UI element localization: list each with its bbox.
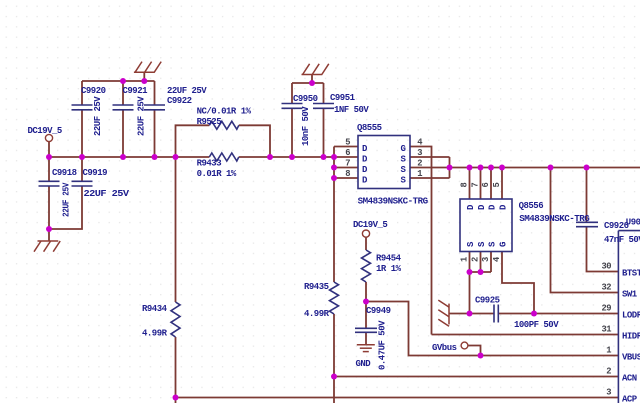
transistor Q8556 body xyxy=(460,199,512,252)
node SW bus Q8556 pin7 xyxy=(478,165,484,171)
svg-text:SM4839NSKC-TRG: SM4839NSKC-TRG xyxy=(358,197,428,207)
wire ACN bus to chip pin2 xyxy=(334,376,618,378)
node SW bus Q8556 pin8 xyxy=(467,165,473,171)
wire C9950 top xyxy=(291,83,293,104)
wire Q8555 pin8 stub xyxy=(334,177,358,179)
svg-text:BTST: BTST xyxy=(622,269,640,279)
svg-text:0.47UF 50V: 0.47UF 50V xyxy=(378,320,388,370)
svg-text:U900: U900 xyxy=(626,218,640,228)
svg-text:31: 31 xyxy=(601,325,611,335)
node R9434-ACP xyxy=(173,395,179,401)
transistor Q8555 body xyxy=(358,136,410,189)
capacitor C9919 xyxy=(72,181,93,186)
node topbus-gnd stem xyxy=(141,78,147,84)
wire Q8555 pin5 stub xyxy=(334,146,358,148)
capacitor C9918 xyxy=(39,181,60,186)
ground GND signal at C9949 xyxy=(357,345,375,352)
capacitor C9926 xyxy=(576,222,598,226)
wire C9925 right to chip pin29 LODRV xyxy=(498,313,618,315)
wire C9918 bottom xyxy=(48,186,50,229)
svg-text:7: 7 xyxy=(345,159,350,169)
svg-text:1R 1%: 1R 1% xyxy=(376,264,402,274)
node SW bus C9926 xyxy=(584,165,590,171)
wire C9949 bottom xyxy=(365,332,367,344)
wire Q8556 top stub pin5 xyxy=(501,168,503,200)
svg-text:6: 6 xyxy=(481,183,491,188)
wire main rail left segment xyxy=(49,156,209,158)
svg-text:1: 1 xyxy=(606,346,611,356)
resistor R9454 xyxy=(362,250,371,282)
wire C9926 top xyxy=(586,168,588,223)
wire ACP bus to chip pin3 xyxy=(176,397,619,399)
svg-text:Q8555: Q8555 xyxy=(357,123,382,133)
capacitor C9951 xyxy=(313,104,334,109)
wire Q8556 source tie horizontal xyxy=(470,271,492,273)
svg-text:22UF 25V: 22UF 25V xyxy=(84,189,130,199)
wire Q8555 pin3 stub xyxy=(410,156,450,158)
node source tie pin2 xyxy=(447,165,453,171)
wire C9926 bottom to chip pin30 BTST xyxy=(587,227,619,272)
svg-text:G: G xyxy=(499,242,509,247)
wire R9434 column bottom xyxy=(175,337,177,403)
node R9454-C9949 xyxy=(363,299,369,305)
node rail-C9921 xyxy=(120,154,126,160)
capacitor C9921 xyxy=(113,105,134,110)
wire main rail right segment xyxy=(239,156,334,158)
svg-text:GVbus: GVbus xyxy=(432,343,457,353)
svg-text:32: 32 xyxy=(601,283,611,293)
svg-text:3: 3 xyxy=(417,148,422,158)
svg-text:3: 3 xyxy=(606,388,611,398)
wire C9921 top xyxy=(122,81,124,105)
node rail-C9920 xyxy=(79,154,85,160)
wire Q8556 source pin2 drop xyxy=(480,252,482,273)
svg-text:NC/0.01R 1%: NC/0.01R 1% xyxy=(197,107,252,117)
resistor R9435 xyxy=(330,282,339,314)
wire ground stem bottom left xyxy=(48,229,50,241)
svg-text:R9525: R9525 xyxy=(197,117,222,127)
node drainbus pin6 xyxy=(331,154,337,160)
wire VBUS from C9949 node xyxy=(366,302,618,356)
node topbus-gnd stem right xyxy=(309,80,315,86)
svg-text:10nF 50V: 10nF 50V xyxy=(301,106,311,146)
wire Q8556 top stub pin7 xyxy=(480,168,482,200)
chip U90 outline xyxy=(618,231,640,403)
wire R9434 column top xyxy=(175,157,177,302)
wire Q8555 pin6 stub xyxy=(334,156,358,158)
svg-text:4.99R: 4.99R xyxy=(142,329,168,339)
wire ground stem left xyxy=(143,72,145,81)
wire R9435 column bottom xyxy=(333,314,335,403)
ground chassis bottom-left xyxy=(34,241,60,252)
svg-text:1: 1 xyxy=(460,257,470,262)
node drainbus pin7 xyxy=(331,165,337,171)
node rail-R9525 right xyxy=(267,154,273,160)
svg-text:G: G xyxy=(401,144,406,154)
wire C9951 top xyxy=(323,83,325,104)
svg-text:22UF 25V: 22UF 25V xyxy=(167,86,207,96)
wire R9454 bottom xyxy=(365,282,367,302)
svg-text:8: 8 xyxy=(460,183,470,188)
node rail-C9922 xyxy=(152,154,158,160)
svg-text:C9950: C9950 xyxy=(293,94,318,104)
capacitor C9920 xyxy=(72,105,93,110)
capacitor C9950 xyxy=(282,104,303,109)
svg-text:100PF 50V: 100PF 50V xyxy=(514,320,559,330)
svg-text:GND: GND xyxy=(356,359,372,369)
svg-text:3: 3 xyxy=(481,257,491,262)
port GVbus xyxy=(461,342,468,349)
wire Q8556 gate path to LODRV node xyxy=(502,252,534,314)
svg-text:HIDRV: HIDRV xyxy=(622,332,640,342)
wire C9919 top xyxy=(81,157,83,181)
wire Q8556 source pin1 drop to ground node xyxy=(469,252,471,314)
wire Q8555 gate stub pin4 xyxy=(410,147,432,335)
wire Q8555 drain bus xyxy=(333,147,335,283)
wire R9525 loop left xyxy=(176,125,210,157)
node SW bus Q8556 pin5 xyxy=(499,165,505,171)
wire C9922 top xyxy=(154,81,156,105)
ground chassis at C9925 xyxy=(438,300,449,326)
wire ground to C9925 left xyxy=(449,313,494,315)
wire C9950 bottom xyxy=(291,108,293,157)
wire C9918 top xyxy=(48,157,50,181)
capacitor C9949 xyxy=(355,328,377,332)
wire GVbus branch xyxy=(468,346,481,356)
wire DC19V_5 second port drop xyxy=(365,237,367,250)
node topbus-C9921 xyxy=(120,78,126,84)
svg-text:ACN: ACN xyxy=(622,374,637,384)
svg-text:R9454: R9454 xyxy=(376,254,402,264)
svg-text:DC19V_5: DC19V_5 xyxy=(28,126,62,136)
resistor R9433 xyxy=(209,153,239,161)
wire Q8555 pin1 stub xyxy=(410,177,450,179)
node GVbus-VBUS xyxy=(478,353,484,359)
wire C9920 top xyxy=(81,81,83,105)
svg-text:DC19V_5: DC19V_5 xyxy=(353,220,387,230)
svg-text:R9433: R9433 xyxy=(197,159,222,169)
wire top cap bus left xyxy=(82,80,155,82)
node C9918-C9919 join xyxy=(46,226,52,232)
wire top cap bus right xyxy=(292,82,324,84)
svg-text:8: 8 xyxy=(345,169,350,179)
svg-text:22UF 25V: 22UF 25V xyxy=(62,182,72,217)
svg-text:47nF 50V: 47nF 50V xyxy=(604,235,640,245)
svg-text:7: 7 xyxy=(471,183,481,188)
svg-text:C9922: C9922 xyxy=(167,96,192,106)
svg-text:0.01R 1%: 0.01R 1% xyxy=(197,169,237,179)
wire C9951 bottom xyxy=(323,108,325,157)
svg-text:2: 2 xyxy=(606,367,611,377)
svg-text:22UF 25V: 22UF 25V xyxy=(137,96,147,136)
svg-text:4.99R: 4.99R xyxy=(304,309,330,319)
wire ground stem right xyxy=(311,75,313,84)
wire HIDRV to chip pin31 xyxy=(432,334,619,336)
svg-text:SW1: SW1 xyxy=(622,290,638,300)
node SW bus SW1 xyxy=(548,165,554,171)
port DC19V_5 mid xyxy=(362,230,369,237)
svg-text:LODRV: LODRV xyxy=(622,311,640,321)
svg-text:C9920: C9920 xyxy=(81,86,106,96)
wire R9525 loop right xyxy=(239,125,270,157)
svg-text:VBUS: VBUS xyxy=(622,353,640,363)
svg-text:C9919: C9919 xyxy=(83,168,108,178)
ground chassis top-left xyxy=(134,62,161,73)
node gnd C9925 left xyxy=(467,311,473,317)
svg-text:C9951: C9951 xyxy=(330,93,356,103)
node rail-C9950 xyxy=(289,154,295,160)
svg-text:C9949: C9949 xyxy=(366,306,391,316)
wire Q8555 pin2 stub and SW bus xyxy=(410,167,640,169)
node rail-C9951 xyxy=(321,154,327,160)
svg-text:5: 5 xyxy=(492,183,502,188)
svg-text:C9918: C9918 xyxy=(52,168,77,178)
svg-text:30: 30 xyxy=(601,262,611,272)
ground chassis top-right xyxy=(302,64,329,75)
svg-text:29: 29 xyxy=(601,304,611,314)
svg-text:R9435: R9435 xyxy=(304,282,329,292)
node Q8556 S2 xyxy=(478,269,484,275)
wire Q8555 source tie vertical xyxy=(449,157,451,178)
svg-text:C9921: C9921 xyxy=(123,86,149,96)
svg-text:22UF 25V: 22UF 25V xyxy=(93,96,103,136)
wire C9922 bottom xyxy=(154,110,156,157)
node rail-R9525 left xyxy=(173,154,179,160)
node Q8556 S1 xyxy=(467,269,473,275)
wire C9919 bottom L xyxy=(49,186,82,229)
node SW bus Q8556 pin6 xyxy=(488,165,494,171)
wire DC19V_5 port drop xyxy=(48,142,50,158)
svg-text:1NF 50V: 1NF 50V xyxy=(334,105,369,115)
svg-text:R9434: R9434 xyxy=(142,304,168,314)
resistor R9434 xyxy=(171,302,180,337)
svg-text:ACP: ACP xyxy=(622,395,638,403)
node drainbus pin8 xyxy=(331,175,337,181)
node rail-port xyxy=(46,154,52,160)
svg-text:SM4839NSKC-TRG: SM4839NSKC-TRG xyxy=(519,214,589,224)
capacitor C9922 xyxy=(144,105,165,110)
wire Q8555 pin7 stub xyxy=(334,167,358,169)
wire C9920 bottom xyxy=(81,110,83,157)
svg-text:1: 1 xyxy=(417,169,422,179)
wire C9921 bottom xyxy=(122,110,124,157)
capacitor C9925 xyxy=(494,305,498,323)
svg-text:2: 2 xyxy=(471,257,481,262)
svg-text:6: 6 xyxy=(345,148,350,158)
node C9925 right LODRV xyxy=(531,311,537,317)
wire Q8556 top stub pin6 xyxy=(490,168,492,200)
svg-text:2: 2 xyxy=(417,159,422,169)
svg-text:5: 5 xyxy=(345,138,350,148)
svg-text:C9925: C9925 xyxy=(475,296,500,306)
resistor R9525 xyxy=(209,121,239,129)
wire Q8556 top stub pin8 xyxy=(469,168,471,200)
node R9435-ACN xyxy=(331,374,337,380)
wire Q8556 source pin3 drop xyxy=(490,252,492,273)
wire SW1 drop xyxy=(551,168,619,293)
wire C9949 top xyxy=(365,302,367,329)
svg-text:Q8556: Q8556 xyxy=(519,201,544,211)
port DC19V_5 left xyxy=(45,134,52,141)
